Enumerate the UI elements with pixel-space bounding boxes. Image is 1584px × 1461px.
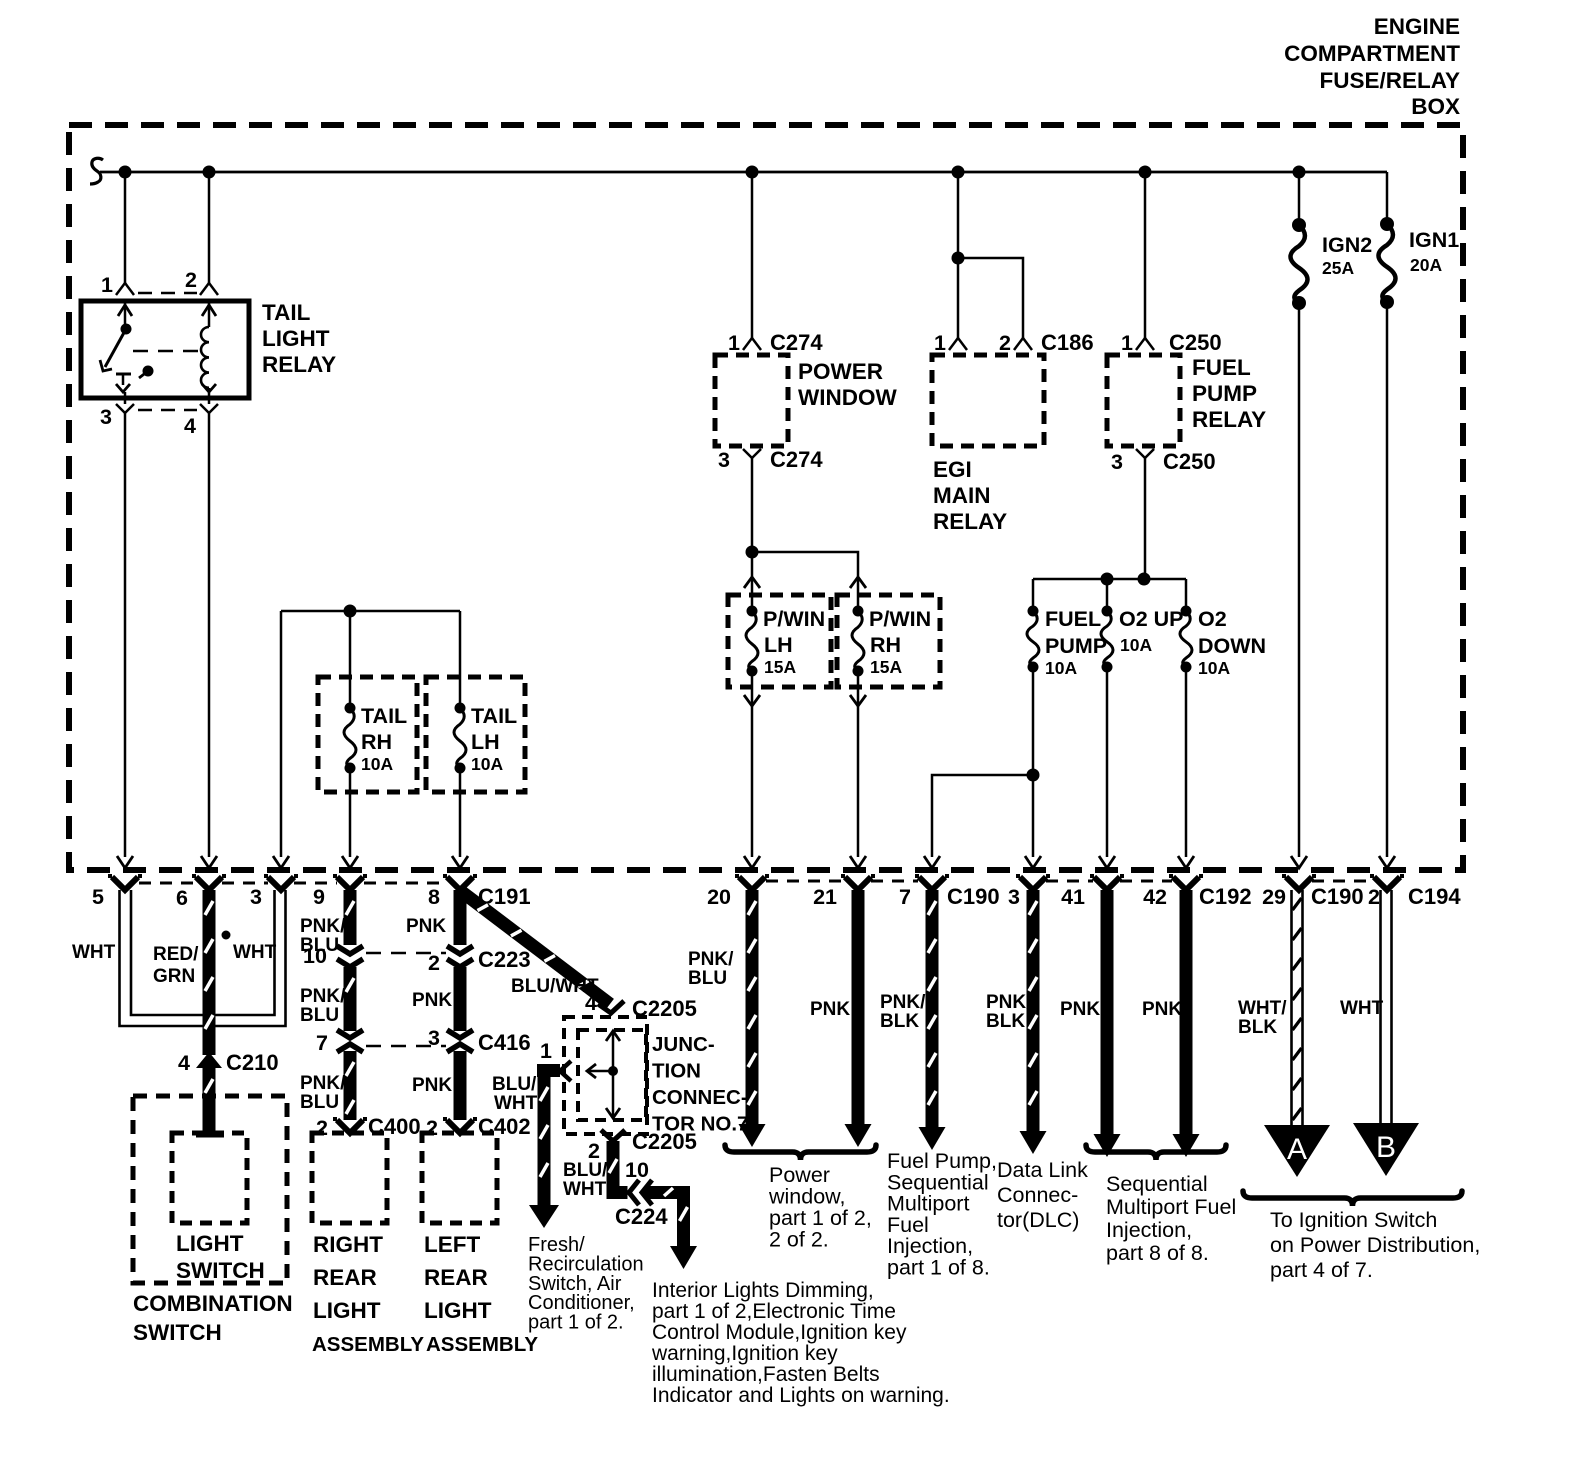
- svg-text:B: B: [1376, 1131, 1396, 1164]
- svg-text:REAR: REAR: [424, 1265, 488, 1290]
- pin 2 C2205 connector: [588, 1129, 697, 1163]
- svg-text:O2: O2: [1198, 607, 1227, 631]
- svg-text:20A: 20A: [1410, 255, 1442, 275]
- fuse O2 DOWN 10A: [1180, 606, 1266, 679]
- svg-text:3: 3: [250, 885, 262, 909]
- pin 1 tail light relay: [101, 273, 134, 297]
- svg-text:PNK/: PNK/: [986, 992, 1032, 1013]
- cable PNK/BLU pin9 seg3: [344, 1051, 357, 1120]
- svg-text:PNK: PNK: [406, 916, 446, 937]
- svg-text:DOWN: DOWN: [1198, 634, 1266, 658]
- box junction connector inner (dashed): [578, 1030, 646, 1120]
- svg-text:BLU: BLU: [688, 968, 727, 989]
- box LEFT REAR LIGHT ASSEMBLY (dashed): [422, 1133, 497, 1223]
- label BLU/WHT diagonal: [511, 976, 599, 997]
- svg-text:5: 5: [92, 885, 104, 909]
- fuse TAIL RH 10A: [344, 703, 407, 775]
- svg-text:2: 2: [316, 1116, 328, 1140]
- svg-text:LH: LH: [764, 633, 793, 657]
- svg-text:C194: C194: [1408, 884, 1461, 909]
- svg-text:part 1 of 2.: part 1 of 2.: [528, 1312, 624, 1334]
- svg-text:LIGHT: LIGHT: [262, 326, 330, 351]
- svg-text:Indicator and Lights on warnin: Indicator and Lights on warning.: [652, 1384, 950, 1407]
- svg-text:P/WIN: P/WIN: [869, 607, 931, 631]
- svg-text:29: 29: [1262, 885, 1286, 909]
- fuse box TAIL RH (dashed): [318, 677, 417, 792]
- pin 5 connector: [92, 876, 142, 909]
- pin 4 tail light relay: [184, 404, 218, 438]
- brace to ignition switch: [1243, 1191, 1462, 1206]
- svg-text:3: 3: [718, 448, 730, 472]
- node DLC branch junction: [1027, 769, 1040, 782]
- svg-text:RELAY: RELAY: [1192, 407, 1266, 432]
- svg-text:part 4 of 7.: part 4 of 7.: [1270, 1258, 1373, 1282]
- cable BLU/WHT C224 to interior lights: [644, 1186, 697, 1269]
- svg-text:WHT: WHT: [72, 942, 116, 963]
- svg-text:LH: LH: [471, 730, 500, 754]
- svg-text:2: 2: [185, 268, 197, 292]
- cable PNK pin8 seg1: [454, 890, 467, 945]
- label pin 2 C223: [428, 947, 531, 975]
- label WHT/BLK pin29: [1238, 998, 1287, 1038]
- wire tail relay pin3 exit: [124, 392, 127, 404]
- svg-text:10: 10: [625, 1158, 649, 1182]
- svg-text:MAIN: MAIN: [933, 483, 991, 508]
- wire dashed C223 row: [366, 952, 446, 955]
- label BLU/WHT pin2: [563, 1160, 608, 1200]
- node tail feeder junction: [344, 605, 357, 618]
- node bus junction x209: [203, 166, 216, 179]
- node bus junction x752: [746, 166, 759, 179]
- svg-text:BLK: BLK: [880, 1011, 919, 1032]
- cable PNK/BLK pin 3: [1020, 890, 1047, 1154]
- wire DLC branch: [924, 775, 1033, 868]
- wire dashed link 9-8: [364, 882, 447, 885]
- svg-text:LIGHT: LIGHT: [176, 1231, 244, 1256]
- svg-text:SWITCH: SWITCH: [176, 1258, 265, 1283]
- wire tail fuse feeder: [273, 611, 460, 868]
- wire O2 UP fuse to pin 41: [1099, 667, 1115, 868]
- svg-text:LIGHT: LIGHT: [313, 1298, 381, 1323]
- svg-text:BOX: BOX: [1411, 94, 1460, 119]
- pin 20 connector: [707, 876, 769, 909]
- wire fuel pump fuse down: [1025, 667, 1041, 868]
- label PNK/BLK pin3: [986, 992, 1032, 1032]
- label PNK col8 2: [412, 990, 452, 1011]
- svg-text:SWITCH: SWITCH: [133, 1320, 222, 1345]
- label WHT pin5: [72, 942, 116, 963]
- wire dashed link 29-2: [1312, 880, 1374, 883]
- cable BLU/WHT diagonal pin8 to C2205: [458, 887, 614, 1009]
- cable WHT pin 2: [1381, 890, 1392, 1123]
- svg-text:25A: 25A: [1322, 258, 1354, 278]
- svg-text:C192: C192: [1199, 884, 1252, 909]
- wire bus to IGN2 fuse: [1298, 172, 1301, 225]
- box LIGHT SWITCH (dashed): [172, 1133, 247, 1223]
- svg-text:1: 1: [1121, 331, 1133, 355]
- wire bus to IGN1 fuse: [1386, 172, 1389, 224]
- wire dashed link 6-3: [222, 882, 268, 885]
- label WHT pin2: [1340, 998, 1384, 1019]
- svg-text:3: 3: [428, 1026, 440, 1050]
- tail light relay box: [81, 301, 249, 398]
- label PNK/BLU 1: [300, 916, 346, 956]
- svg-text:9: 9: [313, 885, 325, 909]
- cable WHT/BLK pin 29: [1292, 890, 1303, 1125]
- svg-text:10A: 10A: [1120, 635, 1152, 655]
- label PNK col8 3: [412, 1075, 452, 1096]
- svg-text:C223: C223: [478, 947, 531, 972]
- label PNK col8 1: [406, 916, 446, 937]
- svg-text:To Ignition Switch: To Ignition Switch: [1270, 1208, 1437, 1232]
- pin 1 C274: [728, 330, 823, 355]
- pin 3 C250: [1111, 449, 1216, 474]
- relay mechanical link (dashed): [133, 350, 205, 353]
- svg-text:10: 10: [303, 944, 327, 968]
- svg-text:42: 42: [1143, 885, 1167, 909]
- svg-text:Sequential: Sequential: [1106, 1172, 1208, 1196]
- svg-text:3: 3: [100, 405, 112, 429]
- pin 41 connector: [1061, 876, 1124, 909]
- svg-text:Multiport Fuel: Multiport Fuel: [1106, 1195, 1236, 1219]
- label LIGHT SWITCH: [176, 1231, 265, 1283]
- svg-text:Control Module,Ignition key: Control Module,Ignition key: [652, 1321, 907, 1344]
- wire C274 pin3 down: [751, 466, 754, 552]
- cable PNK/BLK pin 7: [919, 890, 946, 1150]
- cable PNK pin8 seg3: [454, 1051, 467, 1120]
- label WHT pin3: [233, 942, 277, 963]
- svg-text:10A: 10A: [471, 754, 503, 774]
- svg-text:BLU: BLU: [300, 1005, 339, 1026]
- svg-text:4: 4: [585, 991, 597, 1015]
- fuse box P/WIN LH (dashed): [728, 595, 831, 687]
- svg-text:C250: C250: [1163, 449, 1216, 474]
- brace sequential multiport: [1086, 1145, 1226, 1160]
- svg-text:part 1 of 8.: part 1 of 8.: [887, 1256, 990, 1280]
- svg-text:3: 3: [1111, 450, 1123, 474]
- wire to TAIL LH fuse: [459, 611, 462, 708]
- node C186 branch: [952, 252, 965, 265]
- label PNK/BLK pin7: [880, 992, 926, 1032]
- svg-text:part 1 of 2,Electronic Time: part 1 of 2,Electronic Time: [652, 1300, 896, 1323]
- svg-text:C274: C274: [770, 447, 823, 472]
- svg-text:21: 21: [813, 885, 837, 909]
- relay switch contact 2: [139, 366, 154, 379]
- svg-text:RED/: RED/: [153, 944, 199, 965]
- label sequential multiport: [1106, 1172, 1236, 1265]
- wire tail relay pin4 to connector pin 6: [201, 421, 217, 868]
- svg-text:C186: C186: [1041, 330, 1094, 355]
- svg-text:15A: 15A: [764, 657, 796, 677]
- svg-text:COMBINATION: COMBINATION: [133, 1291, 293, 1316]
- svg-text:Injection,: Injection,: [1106, 1218, 1192, 1242]
- label EGI MAIN RELAY: [933, 457, 1007, 534]
- svg-text:WHT: WHT: [494, 1093, 538, 1114]
- svg-text:P/WIN: P/WIN: [763, 607, 825, 631]
- wire into P/WIN RH fuse: [850, 572, 866, 611]
- wire dashed link 41-42: [1120, 880, 1172, 883]
- wire WHT loop pins 5-3: [120, 890, 286, 1026]
- pin 42 connector C192: [1143, 876, 1252, 909]
- fuse O2 UP 10A: [1101, 606, 1184, 673]
- fuse TAIL LH 10A: [454, 703, 517, 775]
- cable BLU/WHT to fresh/recirculation: [529, 1064, 560, 1228]
- fuse box P/WIN RH (dashed): [837, 595, 940, 687]
- engine compartment fuse/relay box (dashed border): [69, 125, 1463, 870]
- svg-text:WHT: WHT: [563, 1179, 607, 1200]
- svg-text:IGN2: IGN2: [1322, 233, 1372, 257]
- svg-text:C210: C210: [226, 1050, 279, 1075]
- svg-text:EGI: EGI: [933, 457, 972, 482]
- svg-text:4: 4: [178, 1051, 190, 1075]
- svg-text:BLK: BLK: [1238, 1017, 1277, 1038]
- svg-text:part 1 of 2,: part 1 of 2,: [769, 1206, 872, 1230]
- svg-text:JUNC-: JUNC-: [652, 1033, 715, 1056]
- fuse P/WIN RH 15A: [852, 606, 931, 678]
- wire bus to C274 pin 1: [751, 172, 754, 338]
- pin 1 junction connector: [540, 1039, 571, 1081]
- connector C224 pin 10: [615, 1158, 668, 1229]
- wire dashed link 21-7: [871, 880, 918, 883]
- pin 1 C250: [1121, 330, 1222, 355]
- node o2up junction: [1101, 573, 1114, 586]
- wire C250 pin3 down: [1144, 466, 1147, 579]
- svg-text:2: 2: [999, 331, 1011, 355]
- svg-text:WINDOW: WINDOW: [798, 385, 897, 410]
- connector C416 pin 3: [447, 1030, 473, 1052]
- svg-text:6: 6: [176, 886, 188, 910]
- relay switch contact: [116, 374, 131, 392]
- svg-text:TAIL: TAIL: [262, 300, 311, 325]
- svg-text:FUSE/RELAY: FUSE/RELAY: [1320, 68, 1460, 93]
- svg-text:ASSEMBLY: ASSEMBLY: [426, 1333, 538, 1356]
- svg-text:1: 1: [934, 331, 946, 355]
- wire C186 branch to pin 2: [958, 258, 1023, 338]
- svg-text:ASSEMBLY: ASSEMBLY: [312, 1333, 424, 1356]
- label data link connector: [997, 1158, 1088, 1232]
- wire power bus: [90, 158, 1387, 184]
- cable PNK/BLU pin 20: [739, 890, 766, 1147]
- svg-text:PNK: PNK: [412, 990, 452, 1011]
- svg-text:C190: C190: [1311, 884, 1364, 909]
- wire TAIL RH fuse to pin 9: [342, 768, 358, 868]
- wire dashed link 3-41: [1046, 880, 1093, 883]
- svg-text:C274: C274: [770, 330, 823, 355]
- svg-text:TION: TION: [652, 1060, 701, 1083]
- svg-text:PNK/: PNK/: [300, 916, 346, 937]
- pin 2 C400 connector: [316, 1114, 421, 1140]
- label TAIL LIGHT RELAY: [262, 300, 336, 377]
- fuse P/WIN LH 15A: [746, 606, 825, 678]
- svg-text:CONNEC-: CONNEC-: [652, 1086, 748, 1109]
- cable PNK/BLU pin9 seg2: [344, 967, 357, 1031]
- node fuelpump feeder junction: [1138, 573, 1151, 586]
- cable PNK/BLU pin9 seg1: [344, 890, 357, 945]
- label PNK/BLU pin20: [688, 949, 734, 989]
- relay switch pivot: [121, 324, 132, 335]
- svg-text:GRN: GRN: [153, 966, 195, 987]
- connector C223 pin 10: [303, 944, 363, 968]
- svg-text:C416: C416: [478, 1030, 531, 1055]
- pin 3 C274: [718, 447, 823, 472]
- svg-text:7: 7: [899, 885, 911, 909]
- fuse FUEL PUMP 10A: [1027, 606, 1107, 679]
- svg-text:COMPARTMENT: COMPARTMENT: [1284, 41, 1460, 66]
- label ENGINE COMPARTMENT FUSE/RELAY BOX: [1284, 14, 1460, 119]
- svg-text:4: 4: [184, 414, 196, 438]
- box junction connector outer (dashed): [564, 1017, 647, 1134]
- label BLU/WHT pin1: [492, 1074, 538, 1114]
- label FUEL PUMP RELAY: [1192, 355, 1266, 432]
- svg-text:RIGHT: RIGHT: [313, 1232, 383, 1257]
- pin 4 C2205 connector: [585, 991, 697, 1021]
- label COMBINATION SWITCH: [133, 1291, 293, 1345]
- svg-text:warning,Ignition key: warning,Ignition key: [651, 1342, 838, 1365]
- label RIGHT REAR LIGHT ASSEMBLY: [312, 1232, 424, 1356]
- wire dashed C416 row: [366, 1045, 446, 1048]
- connector C416 pin 7: [316, 1030, 363, 1055]
- wire dashed connector link pins 3-4: [138, 409, 197, 412]
- wire O2 DOWN fuse to pin 42: [1178, 667, 1194, 868]
- node bus junction x958: [952, 166, 965, 179]
- wire tail relay pin2 entry: [202, 301, 216, 323]
- svg-text:Power: Power: [769, 1163, 830, 1187]
- wire bus to C250 pin 1: [1144, 172, 1147, 338]
- svg-text:illumination,Fasten Belts: illumination,Fasten Belts: [652, 1363, 880, 1386]
- pin 2 tail light relay: [185, 268, 218, 295]
- svg-text:2: 2: [1368, 885, 1380, 909]
- wire fuel/o2 feeder: [1033, 579, 1186, 611]
- svg-text:IGN1: IGN1: [1409, 228, 1459, 252]
- svg-text:41: 41: [1061, 885, 1085, 909]
- svg-text:1: 1: [101, 273, 113, 297]
- svg-text:8: 8: [428, 885, 440, 909]
- label to ignition switch: [1270, 1208, 1480, 1282]
- svg-text:LEFT: LEFT: [424, 1232, 480, 1257]
- pin 7 connector C190: [899, 876, 1000, 909]
- svg-text:PUMP: PUMP: [1045, 634, 1107, 658]
- svg-text:ENGINE: ENGINE: [1374, 14, 1460, 39]
- junction connector no.7 internals: [587, 1031, 620, 1118]
- relay box POWER WINDOW (dashed): [715, 355, 788, 446]
- svg-text:PNK/: PNK/: [880, 992, 926, 1013]
- pin 3 tail light relay: [100, 404, 134, 429]
- label fresh/recirculation switch: [528, 1234, 644, 1334]
- cable RED/GRN C210 to light switch: [196, 1068, 224, 1138]
- svg-text:O2 UP: O2 UP: [1119, 607, 1184, 631]
- wire IGN1 fuse to pin 2: [1379, 302, 1395, 868]
- svg-text:BLU/: BLU/: [492, 1074, 537, 1095]
- box RIGHT REAR LIGHT ASSEMBLY (dashed): [312, 1133, 387, 1223]
- svg-text:1: 1: [728, 331, 740, 355]
- wire P/WIN RH fuse to pin 21: [850, 671, 866, 868]
- cable PNK pin 21: [845, 890, 872, 1147]
- svg-text:REAR: REAR: [313, 1265, 377, 1290]
- svg-text:C190: C190: [947, 884, 1000, 909]
- label POWER WINDOW: [798, 359, 897, 410]
- svg-text:WHT: WHT: [1340, 998, 1384, 1019]
- label PNK/BLU 3: [300, 1073, 346, 1113]
- wire tail relay pin1 entry: [118, 301, 132, 330]
- pin 29 connector C190: [1262, 876, 1364, 909]
- svg-text:BLU/: BLU/: [563, 1160, 608, 1181]
- label PNK pin41: [1060, 999, 1100, 1020]
- svg-text:PNK/: PNK/: [300, 986, 346, 1007]
- wire bus to C186: [957, 172, 960, 338]
- pin 4 C210 connector: [178, 1050, 279, 1075]
- svg-text:PNK: PNK: [1142, 999, 1182, 1020]
- wire dashed link 5-6: [139, 882, 196, 885]
- wire p/win branch: [752, 552, 858, 572]
- svg-text:window,: window,: [768, 1185, 846, 1209]
- svg-text:part 8 of 8.: part 8 of 8.: [1106, 1241, 1209, 1265]
- svg-text:FUEL: FUEL: [1192, 355, 1251, 380]
- pin 2 C186: [999, 330, 1094, 355]
- wire dashed connector link pins 1-2: [138, 292, 197, 295]
- svg-text:2: 2: [428, 951, 440, 975]
- wire dashed link 20-21: [766, 880, 845, 883]
- cable RED/GRN pin6 to C210: [203, 890, 216, 1055]
- relay coil: [201, 323, 216, 392]
- svg-text:PNK/: PNK/: [688, 949, 734, 970]
- node A (to ignition switch): [1264, 1125, 1330, 1177]
- svg-text:PNK: PNK: [1060, 999, 1100, 1020]
- node p/win branch: [746, 546, 759, 559]
- connector C223 pin 2: [447, 946, 473, 967]
- svg-text:7: 7: [316, 1031, 328, 1055]
- wire tail relay pin4 exit: [208, 392, 211, 404]
- svg-text:PNK/: PNK/: [300, 1073, 346, 1094]
- label PNK/BLU 2: [300, 986, 346, 1026]
- svg-text:A: A: [1287, 1133, 1307, 1166]
- svg-text:10A: 10A: [1045, 658, 1077, 678]
- label PNK pin42: [1142, 999, 1182, 1020]
- pin 9 connector: [313, 876, 367, 909]
- svg-text:1: 1: [540, 1039, 552, 1063]
- svg-text:PNK: PNK: [810, 999, 850, 1020]
- node bus junction x1299: [1293, 166, 1306, 179]
- svg-text:C250: C250: [1169, 330, 1222, 355]
- wire o2up tap: [1106, 579, 1109, 611]
- wire into P/WIN LH fuse: [744, 552, 760, 611]
- label fuel pump sequential: [887, 1149, 997, 1280]
- fuse IGN2 25A: [1291, 218, 1373, 310]
- pin 2 C402 connector: [426, 1114, 531, 1140]
- svg-text:LIGHT: LIGHT: [424, 1298, 492, 1323]
- wire dashed link 3-9: [294, 882, 337, 885]
- svg-text:2 of 2.: 2 of 2.: [769, 1228, 829, 1252]
- svg-text:2: 2: [426, 1116, 438, 1140]
- svg-text:on Power Distribution,: on Power Distribution,: [1270, 1233, 1480, 1257]
- relay box FUEL PUMP RELAY (dashed): [1107, 355, 1180, 446]
- pin 21 connector: [813, 876, 875, 909]
- svg-text:10A: 10A: [361, 754, 393, 774]
- svg-text:3: 3: [1008, 885, 1020, 909]
- label pin 3 C416: [428, 1026, 531, 1055]
- cable PNK pin 42: [1173, 890, 1200, 1157]
- relay box EGI MAIN RELAY (dashed): [932, 355, 1044, 446]
- svg-text:TAIL: TAIL: [361, 704, 407, 728]
- fuse IGN1 20A: [1379, 217, 1460, 309]
- svg-text:20: 20: [707, 885, 731, 909]
- pin 3 connector DLC: [1008, 876, 1050, 909]
- fuse box TAIL LH (dashed): [426, 677, 525, 792]
- label JUNCTION CONNECTOR NO.7: [652, 1033, 748, 1136]
- svg-text:RH: RH: [870, 633, 901, 657]
- label PNK pin21: [810, 999, 850, 1020]
- pin 6 connector: [176, 876, 226, 910]
- wire to TAIL RH fuse: [349, 611, 352, 708]
